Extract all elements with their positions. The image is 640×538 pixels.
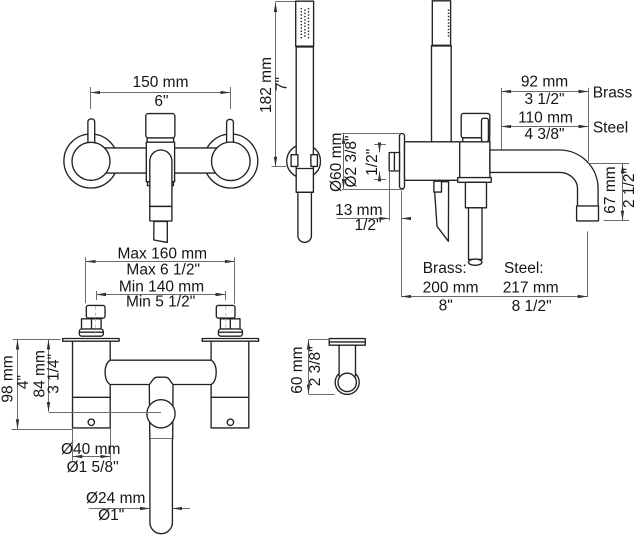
extension line right of 92/110 at spout end — [588, 88, 590, 161]
body section line — [459, 142, 461, 181]
dimension 150 mm line — [90, 92, 230, 94]
svg-text:7": 7" — [274, 77, 291, 91]
spout tube lower rounded end — [150, 439, 173, 534]
left escutcheon inner circle — [72, 142, 110, 180]
right escutcheon inner circle — [212, 142, 251, 181]
extension line bottom of 98 — [12, 429, 73, 431]
extension line top of 67mm — [588, 163, 629, 165]
swivel joint circle — [147, 400, 175, 428]
right fitting nut — [220, 319, 240, 329]
right escutcheon outer circle — [204, 134, 258, 188]
spout angled tip — [154, 221, 168, 242]
holder bracket left — [291, 155, 298, 167]
extension line left of 92/110 — [501, 88, 503, 150]
left cylinder — [73, 341, 111, 428]
dimension 13 mm right arrow — [401, 218, 409, 220]
hose — [469, 208, 483, 260]
svg-text:Ø40 mm: Ø40 mm — [61, 441, 120, 458]
svg-text:8 1/2": 8 1/2" — [512, 298, 552, 315]
left cylinder midline — [73, 396, 111, 398]
extension line D40 left — [72, 428, 74, 461]
holder wall plate — [329, 339, 365, 346]
right fitting nut facet line — [229, 319, 231, 329]
dimension D24 right arrow — [172, 508, 190, 510]
dimension 1/2 connector tick bottom — [374, 179, 386, 181]
extension line D40 right — [110, 428, 112, 461]
svg-text:98 mm: 98 mm — [0, 355, 16, 402]
mixer handle side — [461, 113, 490, 137]
dimension 1/2 connector arrow down — [379, 145, 381, 152]
svg-text:2 1/2": 2 1/2" — [621, 168, 638, 208]
right cylinder — [211, 341, 249, 428]
handshower handle side — [432, 46, 452, 143]
dimension Min line — [96, 294, 225, 296]
svg-text:Ø2 3/8": Ø2 3/8" — [343, 135, 360, 187]
extension line top of D60 — [342, 133, 400, 135]
svg-text:Brass:: Brass: — [423, 260, 467, 277]
spray dots edge-on — [448, 9, 449, 36]
dimension 1/2 connector arrow up — [379, 172, 381, 180]
wall connector — [389, 153, 399, 172]
extension line bottom of D60 — [342, 189, 404, 191]
dimension 60 mm line — [308, 340, 310, 394]
extension line top of 98/84 — [13, 339, 61, 341]
svg-text:182 mm: 182 mm — [258, 57, 275, 113]
right cylinder screw hole — [227, 419, 233, 425]
svg-text:3 1/2": 3 1/2" — [525, 91, 565, 108]
left fitting nut facet line — [91, 319, 93, 329]
extension line Max left — [85, 257, 87, 303]
extension line bottom of 67mm — [604, 220, 630, 222]
dimension 182 mm line — [275, 2, 277, 166]
svg-text:92 mm: 92 mm — [521, 73, 568, 90]
holder stem — [339, 345, 355, 376]
right wall plate — [202, 339, 258, 342]
outlet tube — [465, 182, 486, 208]
extension line left of 200/217 — [401, 190, 403, 297]
left fitting flange — [79, 329, 103, 336]
left cylinder screw hole — [88, 419, 94, 425]
extension line Max right — [234, 257, 236, 303]
svg-text:Max 160 mm: Max 160 mm — [118, 246, 208, 263]
dimension 84 mm line — [48, 340, 50, 412]
left escutcheon outer circle — [64, 134, 118, 188]
dimension 92 mm line — [501, 91, 588, 93]
svg-text:1/2": 1/2" — [364, 149, 381, 176]
right handle stick — [227, 119, 234, 151]
extension line bottom of 60mm — [309, 394, 335, 396]
left handle stick — [88, 119, 95, 151]
extension line right of 150mm — [230, 87, 232, 109]
left fitting centerline — [95, 307, 97, 336]
handle base band — [463, 138, 490, 142]
spray face dots — [301, 8, 310, 39]
right fitting flange — [218, 329, 242, 336]
head/handle divider — [296, 46, 314, 48]
dimension 200/217 line — [401, 296, 587, 298]
svg-text:67 mm: 67 mm — [602, 166, 619, 213]
svg-text:Min 5 1/2": Min 5 1/2" — [126, 293, 195, 310]
left wall plate — [63, 339, 119, 342]
dimension 13 mm leader and arrow — [337, 218, 389, 220]
lower wand with rounded end — [298, 192, 312, 242]
mixer cartridge cap — [146, 114, 175, 138]
right fitting flange midline — [218, 331, 242, 333]
holder bracket side — [434, 181, 442, 192]
holder crossline — [296, 168, 313, 170]
body bottom collar — [458, 178, 492, 183]
spout curved — [490, 150, 598, 206]
svg-text:110 mm: 110 mm — [518, 110, 573, 127]
svg-text:4": 4" — [15, 375, 32, 389]
extension line left of 13mm — [389, 172, 391, 221]
svg-text:2 3/8": 2 3/8" — [307, 346, 324, 386]
head/handle divider side — [432, 45, 452, 47]
extension line Min right — [225, 291, 227, 300]
aerator section — [150, 206, 172, 221]
handshower head side — [432, 1, 450, 46]
left fitting nut — [82, 319, 102, 329]
holder bracket right — [311, 155, 318, 167]
handshower head — [296, 1, 314, 46]
hose end ellipse — [468, 259, 482, 265]
svg-text:Max 6 1/2": Max 6 1/2" — [126, 261, 200, 278]
dimension D60 line — [343, 134, 345, 189]
handle grip — [482, 118, 489, 142]
right cylinder midline — [211, 396, 249, 398]
handshower wand hanging — [434, 182, 449, 242]
extension line right of 200/217 — [587, 231, 589, 297]
svg-text:217 mm: 217 mm — [503, 280, 559, 297]
dimension D24 leader and left arrow — [89, 508, 150, 510]
dimension Max line — [86, 261, 235, 263]
mixer body — [146, 142, 174, 182]
extension line top of 182mm — [276, 1, 296, 3]
faucet body side — [405, 142, 490, 181]
svg-text:200 mm: 200 mm — [423, 280, 479, 297]
svg-text:4 3/8": 4 3/8" — [525, 126, 565, 143]
wall flange side — [400, 134, 405, 189]
holder ring inner — [338, 373, 356, 391]
svg-text:1/2": 1/2" — [354, 217, 381, 234]
left fitting top — [86, 305, 105, 318]
spout tip — [577, 206, 599, 221]
dimension 1/2 connector tick top — [374, 144, 386, 146]
dimension 67 mm line — [622, 164, 624, 221]
right fitting centerline — [225, 307, 227, 336]
dimension 110 mm line — [501, 126, 588, 128]
svg-text:3 1/4": 3 1/4" — [45, 354, 62, 394]
spout tube upper with chamfered top — [149, 377, 173, 439]
extension line top of 60mm — [309, 339, 330, 341]
extension line left of 150mm — [90, 87, 92, 109]
svg-text:Steel:: Steel: — [504, 260, 544, 277]
svg-text:Ø1 5/8": Ø1 5/8" — [67, 459, 119, 476]
holder circle — [287, 144, 321, 178]
connecting bar bottom view — [105, 360, 216, 384]
handle bottom step line — [296, 191, 313, 193]
svg-text:Brass: Brass — [593, 85, 633, 102]
spout tube rounded top — [150, 150, 172, 206]
dimension 98 mm line — [17, 340, 19, 429]
svg-text:8": 8" — [439, 297, 453, 314]
mixer body lip — [148, 182, 174, 186]
wall connector thread line — [393, 153, 395, 172]
svg-text:150 mm: 150 mm — [133, 74, 189, 91]
mixer collar — [147, 138, 174, 142]
extension line bottom of 182mm — [272, 166, 287, 168]
handshower handle — [296, 46, 313, 192]
svg-text:Ø24 mm: Ø24 mm — [86, 490, 145, 507]
svg-text:60 mm: 60 mm — [289, 346, 306, 393]
svg-text:6": 6" — [154, 93, 168, 110]
right fitting top — [216, 305, 235, 318]
connecting bar — [91, 148, 231, 173]
holder plate midline — [329, 341, 365, 343]
dimension D40 line — [73, 456, 111, 458]
extension line Min left — [96, 291, 98, 300]
svg-text:Ø1": Ø1" — [98, 507, 124, 524]
leader line for 84mm — [49, 412, 161, 414]
svg-text:Steel: Steel — [593, 120, 628, 137]
holder ring outer — [335, 370, 359, 394]
left fitting flange midline — [79, 331, 103, 333]
